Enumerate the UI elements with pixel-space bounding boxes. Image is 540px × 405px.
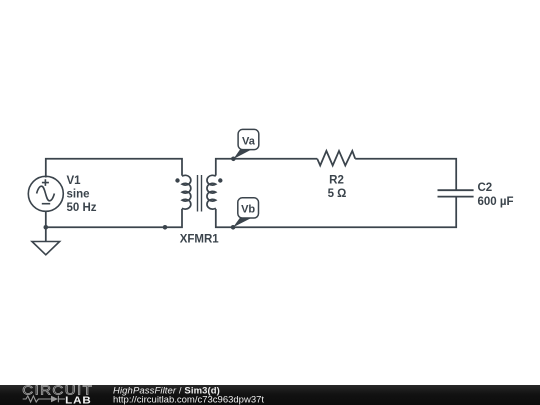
svg-text:http://circuitlab.com/c73c963d: http://circuitlab.com/c73c963dpw37t xyxy=(113,395,264,405)
transformer XFMR1 secondary phase dot xyxy=(218,178,222,182)
svg-text:R2: R2 xyxy=(329,174,344,186)
logo LAB text xyxy=(65,395,92,405)
svg-text:LAB: LAB xyxy=(65,395,92,405)
wire primary top rail (V1 top to XFMR1 primary top) xyxy=(46,159,182,178)
svg-text:V1: V1 xyxy=(67,175,82,187)
wire C2 bottom plate to bottom-right rail to XFMR1 secondary bottom xyxy=(216,197,456,228)
wire R2 right lead to top-right corner down to C2 top plate xyxy=(355,159,456,191)
logo CIRCUIT text xyxy=(22,384,93,398)
label V1 value xyxy=(67,175,97,214)
junction dot on bottom rail xyxy=(163,225,168,230)
wire secondary top rail (XFMR1 secondary top to R2 left lead) xyxy=(216,159,317,176)
node Vb flag box xyxy=(238,198,259,218)
node Va flag box xyxy=(238,129,259,149)
svg-text:Vb: Vb xyxy=(241,204,255,216)
transformer XFMR1 primary winding xyxy=(182,175,191,209)
ground xyxy=(32,242,60,255)
svg-text:5 Ω: 5 Ω xyxy=(328,188,347,200)
svg-text:sine: sine xyxy=(67,189,90,201)
voltage source V1 xyxy=(28,176,63,211)
svg-text:Va: Va xyxy=(242,135,256,147)
svg-text:50 Hz: 50 Hz xyxy=(67,202,97,214)
node Va flag pointer xyxy=(233,149,252,160)
wire primary bottom rail (XFMR1 primary bottom to V1 bottom) xyxy=(46,209,182,227)
svg-text:XFMR1: XFMR1 xyxy=(180,234,220,246)
label C2 value xyxy=(478,182,514,208)
node Vb flag pointer xyxy=(233,217,252,227)
svg-text:600 µF: 600 µF xyxy=(478,196,514,208)
label R2 value xyxy=(328,174,347,200)
transformer XFMR1 core xyxy=(198,175,202,212)
junction dot at V1 bottom node xyxy=(44,225,49,230)
transformer XFMR1 secondary winding xyxy=(207,175,216,209)
svg-text:C2: C2 xyxy=(478,182,493,194)
transformer XFMR1 primary phase dot xyxy=(175,178,179,182)
wire ground stub xyxy=(45,227,47,241)
resistor R2 xyxy=(317,151,355,166)
node Vb junction dot xyxy=(231,225,236,230)
node Va junction dot xyxy=(231,157,236,162)
capacitor C2 xyxy=(438,190,474,196)
logo waveform and diode xyxy=(23,396,65,403)
